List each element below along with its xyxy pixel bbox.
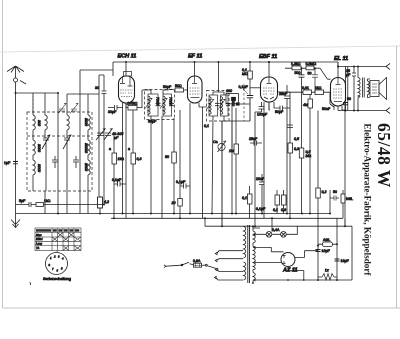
svg-text:1,3kΩ: 1,3kΩ bbox=[291, 62, 301, 66]
wire IF1 connections bbox=[142, 90, 168, 218]
wire tube cathode down bbox=[122, 103, 124, 214]
tube socket circle bbox=[46, 253, 68, 275]
ground symbol bottom left bbox=[11, 214, 20, 228]
svg-text:1M: 1M bbox=[229, 149, 234, 153]
resistor 1k ohm bbox=[36, 203, 44, 207]
output terminal top chevron bbox=[386, 64, 390, 70]
trimmer above box a bbox=[58, 103, 66, 113]
svg-text:3000: 3000 bbox=[84, 118, 88, 126]
long bus y219 bbox=[16, 213, 332, 215]
svg-text:500: 500 bbox=[295, 71, 301, 75]
coil L4 bbox=[45, 115, 47, 130]
capacitor 20nF x262 bbox=[259, 174, 265, 214]
resistor 4M vertical bbox=[308, 99, 313, 108]
svg-text:0,3: 0,3 bbox=[137, 157, 142, 161]
svg-text:0,1µF: 0,1µF bbox=[256, 207, 266, 211]
svg-text:50: 50 bbox=[333, 190, 337, 194]
wire x345 to bus bbox=[344, 219, 346, 227]
wire grid row EL11 bbox=[285, 68, 331, 79]
grid tuned loop bbox=[226, 94, 238, 104]
capacitor 30pF antenna coupling bbox=[99, 75, 107, 205]
resistor cathode EL bbox=[342, 106, 346, 110]
padding cap 2 bbox=[73, 156, 79, 168]
svg-text:16µF: 16µF bbox=[322, 249, 331, 253]
svg-text:0,5: 0,5 bbox=[294, 137, 299, 141]
capacitor 16uF second bbox=[335, 259, 340, 261]
resistor det load bbox=[234, 144, 239, 154]
capacitor 1uF antenna line bbox=[13, 162, 18, 164]
svg-text:0,5MΩ: 0,5MΩ bbox=[306, 62, 317, 66]
wire grid to tube bbox=[250, 87, 261, 89]
IF transformer box 1 dashed bbox=[145, 90, 175, 120]
svg-text:20: 20 bbox=[171, 201, 176, 205]
wire y70 from x80 bbox=[80, 70, 113, 191]
resistor 0.3M right bbox=[288, 143, 293, 153]
svg-text:100pF: 100pF bbox=[257, 113, 268, 117]
coil L3 bbox=[33, 160, 35, 175]
wire x126 long bbox=[125, 103, 127, 218]
selector rotor bbox=[205, 264, 207, 266]
capacitor 0.1uF coupling EBF bbox=[247, 96, 253, 122]
svg-text:30000: 30000 bbox=[84, 143, 88, 153]
rectifier AZ11 bbox=[281, 253, 295, 267]
capacitor 100pF mid bbox=[287, 125, 293, 128]
svg-text:5µF: 5µF bbox=[19, 199, 26, 203]
shield lead dashed bbox=[32, 96, 34, 112]
wire x100 vertical bbox=[98, 75, 100, 196]
misc value labels bbox=[109, 85, 331, 211]
tube EBF11 bbox=[261, 77, 278, 102]
wire row92 bbox=[287, 92, 330, 104]
wire bottom right speaker bbox=[338, 110, 386, 112]
svg-text:0,1µF: 0,1µF bbox=[112, 178, 122, 182]
svg-text:1kΩ: 1kΩ bbox=[118, 157, 125, 161]
wire lamp feeder bbox=[271, 218, 273, 231]
resistor 0.3M vertical bbox=[131, 153, 136, 164]
svg-text:EL 11: EL 11 bbox=[334, 56, 348, 62]
tube EBF11 electrodes bbox=[267, 77, 272, 84]
resistor 0.1M hanging bbox=[248, 71, 253, 79]
wire bus to EL11 bbox=[337, 62, 339, 78]
svg-text:Kurz: Kurz bbox=[36, 233, 42, 237]
wire EL11 cathode bbox=[330, 104, 338, 111]
wire x222 to bus bbox=[221, 121, 223, 226]
svg-text:16µF: 16µF bbox=[341, 259, 350, 263]
svg-text:7000: 7000 bbox=[169, 97, 173, 105]
wire x318 vertical long bbox=[317, 111, 319, 281]
coil grid EF11 bbox=[168, 88, 174, 91]
svg-text:AGL: AGL bbox=[323, 238, 330, 242]
IF transformer box 2 dashed bbox=[207, 91, 230, 122]
wire antenna row bbox=[16, 92, 59, 94]
socket pins bbox=[49, 255, 65, 273]
wire bus to EBF11 bbox=[268, 62, 270, 77]
tube EL11 bbox=[331, 78, 346, 107]
long bus y212 bbox=[111, 217, 343, 219]
selector contact forks bbox=[215, 252, 218, 279]
resistor 1k vertical bbox=[112, 153, 117, 164]
wire x58 vertical bbox=[57, 93, 59, 214]
trimmer C2 bbox=[63, 135, 71, 150]
wire lamps loop bbox=[272, 227, 298, 235]
wire screen feed vertical bbox=[346, 67, 348, 111]
tube EF11 bbox=[188, 76, 203, 103]
mains switch bbox=[181, 264, 183, 266]
wire AZ11 bottom loop bbox=[288, 267, 304, 281]
coil L6 bbox=[88, 115, 90, 130]
svg-text:0,1µF: 0,1µF bbox=[239, 85, 249, 89]
IF2 cap a bbox=[215, 103, 220, 105]
svg-text:1µF: 1µF bbox=[4, 161, 11, 165]
wire EBF cathode legs bbox=[264, 102, 274, 218]
mains lead bbox=[164, 265, 181, 268]
IF2 trimmer arrow a bbox=[207, 99, 214, 109]
coil L5 bbox=[67, 115, 69, 130]
svg-text:EF 11: EF 11 bbox=[188, 54, 202, 60]
svg-text:Mittel: Mittel bbox=[36, 237, 43, 241]
svg-text:30µF: 30µF bbox=[108, 110, 117, 114]
svg-text:25nF: 25nF bbox=[249, 137, 258, 141]
page edge right bbox=[396, 46, 398, 308]
wire coil col1 bbox=[32, 93, 34, 191]
wire EF11 cathode down bbox=[189, 103, 191, 214]
output transformer primary bbox=[358, 78, 360, 98]
svg-text:EBF 11: EBF 11 bbox=[259, 54, 277, 60]
wire coil col2 bbox=[45, 93, 46, 191]
wire x354 bbox=[353, 66, 355, 68]
wire x180 bbox=[179, 110, 181, 218]
resistor 0.5M row bbox=[306, 66, 314, 70]
resistor 20 cathode EF bbox=[178, 199, 183, 207]
IF2 coil a bbox=[209, 97, 211, 115]
svg-text:20nF: 20nF bbox=[256, 177, 265, 181]
IF2 tuned loop b bbox=[221, 95, 229, 116]
capacitor 100pF diode bbox=[255, 102, 265, 226]
svg-text:NSL: NSL bbox=[346, 197, 353, 201]
wire transformer conns bbox=[358, 67, 370, 111]
wire coil col4 bbox=[87, 94, 89, 191]
svg-text:300: 300 bbox=[37, 120, 41, 126]
resistor 50 grid EF11 bbox=[175, 88, 184, 92]
capacitor 16uF first bbox=[316, 250, 321, 252]
wire top right to speaker bbox=[330, 62, 386, 67]
svg-text:TA: TA bbox=[36, 246, 39, 250]
IF1 cap a bbox=[156, 103, 161, 105]
svg-text:50Ω: 50Ω bbox=[175, 84, 182, 88]
svg-text:3000: 3000 bbox=[37, 144, 41, 152]
capacitor 50pF bbox=[274, 92, 290, 111]
svg-text:0,2: 0,2 bbox=[322, 190, 327, 194]
wire secondary top to lamps bbox=[254, 233, 267, 236]
wire x330 vertical bbox=[329, 190, 331, 214]
svg-text:Serienschaltung: Serienschaltung bbox=[43, 276, 71, 281]
capacitor 0.1uF EF11 bbox=[180, 184, 190, 189]
svg-text:0,8A: 0,8A bbox=[193, 259, 201, 263]
wire bottom right rail bbox=[254, 279, 353, 281]
wire grid cap to tube bbox=[113, 62, 126, 76]
capacitor 50pF second bbox=[312, 68, 318, 92]
wire fuse to selector bbox=[202, 264, 206, 266]
wire x302 lower bbox=[301, 92, 303, 213]
resistor 0.5M vertical bbox=[299, 148, 304, 158]
svg-text:30: 30 bbox=[95, 86, 99, 90]
capacitor 25uF output bbox=[352, 67, 356, 111]
svg-text:50: 50 bbox=[165, 155, 169, 159]
svg-text:Elektro-Apparate-Fabrik, Köppe: Elektro-Apparate-Fabrik, Köppelsdorf bbox=[363, 124, 373, 277]
resistor 100k EBF grid bbox=[232, 97, 236, 100]
wire coil col3 bbox=[66, 94, 68, 191]
resistor 0.01 / 1k row bbox=[303, 90, 312, 95]
tick mark bbox=[29, 282, 32, 285]
fuse 0.8A bbox=[194, 263, 202, 267]
wire x270 down bbox=[269, 102, 270, 110]
power transformer secondary bbox=[253, 231, 255, 243]
tube EF11 electrodes bbox=[192, 76, 197, 84]
table row labels bbox=[36, 233, 43, 250]
svg-text:a: a bbox=[109, 147, 111, 151]
padding cap bbox=[52, 156, 58, 168]
IF1 coil a bbox=[148, 96, 150, 115]
svg-text:30µF: 30µF bbox=[148, 120, 157, 124]
resistor EF11 screen bbox=[172, 152, 177, 163]
wire top primary tap bbox=[204, 218, 206, 226]
IF2 cap b bbox=[226, 103, 230, 105]
page edge bottom bbox=[3, 307, 400, 309]
wire table to socket bbox=[56, 251, 58, 253]
tube ECH11 bbox=[119, 76, 135, 103]
resistor x100 bottom bbox=[98, 197, 103, 208]
svg-text:3000: 3000 bbox=[37, 164, 41, 172]
svg-text:100: 100 bbox=[226, 89, 232, 93]
svg-text:28nF: 28nF bbox=[279, 92, 288, 96]
volume pot bbox=[218, 143, 225, 150]
capacitor 30pF cathode bbox=[108, 105, 123, 110]
capacitor 25nF coupling bbox=[250, 141, 262, 146]
choke Dr bbox=[318, 274, 337, 281]
output terminal bottom chevron bbox=[386, 108, 390, 114]
capacitor 0.1uF left bbox=[114, 182, 126, 187]
coil L7 bbox=[88, 140, 90, 155]
wire x345 vertical bbox=[344, 102, 346, 226]
resistor x250 vertical bbox=[248, 194, 253, 204]
power transformer primary bbox=[244, 226, 246, 258]
svg-text:MΩ: MΩ bbox=[242, 72, 248, 76]
IF2 coil b bbox=[221, 97, 223, 115]
IF1 cap b bbox=[169, 103, 174, 105]
tube table bbox=[35, 228, 81, 251]
output transformer secondary bbox=[368, 81, 370, 95]
wire bus to EF11 top bbox=[194, 62, 196, 76]
dial lamp 1 bbox=[266, 232, 272, 238]
trimmer pair 40-105pF bbox=[96, 129, 105, 140]
output transformer core bbox=[363, 78, 365, 98]
IF2 tuned loop a bbox=[209, 95, 218, 116]
svg-text:50nF: 50nF bbox=[322, 107, 331, 111]
wire y94 row to tube bbox=[67, 93, 99, 95]
svg-text:Lang: Lang bbox=[36, 241, 42, 245]
svg-text:0,4A: 0,4A bbox=[272, 228, 280, 232]
NSL resistor right bbox=[341, 194, 345, 203]
capacitor 5uF bbox=[16, 202, 37, 207]
svg-text:50: 50 bbox=[347, 97, 351, 101]
wire coil box bottom stubs bbox=[45, 191, 88, 214]
IF2 trimmer arrow b bbox=[218, 99, 225, 109]
tube EL11 electrodes bbox=[336, 78, 341, 85]
svg-text:Ca: Ca bbox=[213, 140, 218, 144]
svg-text:50: 50 bbox=[308, 72, 312, 76]
capacitor 500pF bbox=[299, 68, 305, 92]
wire AZ11 anode 2 bbox=[254, 261, 282, 263]
capacitor 50nF cathode bbox=[343, 103, 348, 105]
svg-text:0,1: 0,1 bbox=[204, 124, 209, 128]
wire EF11 anode down bbox=[199, 103, 202, 107]
svg-text:4M: 4M bbox=[303, 103, 308, 107]
resistor AGL bbox=[323, 242, 333, 247]
svg-text:0,1: 0,1 bbox=[242, 196, 247, 200]
capacitor 28nF left bbox=[284, 85, 290, 214]
svg-text:65/48 W: 65/48 W bbox=[374, 123, 394, 188]
table header text blocks bbox=[36, 229, 79, 232]
power transformer core bbox=[248, 225, 250, 283]
svg-text:0,3: 0,3 bbox=[294, 147, 299, 151]
svg-text:0,1µF: 0,1µF bbox=[176, 180, 186, 184]
dial lamp 2 bbox=[281, 232, 287, 238]
wire x228 detector bbox=[231, 108, 233, 150]
capacitor IF2 out bbox=[231, 121, 233, 214]
wire IF2 connections bbox=[202, 62, 250, 226]
trimmer above box b bbox=[70, 103, 78, 113]
IF1 trimmer arrow a bbox=[145, 98, 152, 108]
svg-text:4,2: 4,2 bbox=[104, 200, 109, 204]
IF1 tuned loop b bbox=[163, 94, 172, 116]
tube ECH11 top cap bbox=[124, 72, 132, 77]
wire HT secondary top bbox=[254, 246, 284, 252]
resistor 1.3k row bbox=[292, 66, 301, 70]
IF1 trimmer arrow b bbox=[160, 98, 167, 108]
selector tap wires bbox=[216, 251, 243, 280]
IF1 coil b bbox=[163, 96, 165, 115]
page edge left bbox=[2, 0, 4, 308]
wire x133 bbox=[132, 110, 134, 214]
wire top bus y62 bbox=[113, 61, 330, 63]
antenna bbox=[7, 66, 26, 93]
long bus y225 bbox=[205, 225, 352, 227]
svg-text:1kΩ: 1kΩ bbox=[315, 86, 322, 90]
trimmer C bbox=[42, 135, 50, 150]
tuning coil box dashed bbox=[27, 112, 92, 191]
speaker bbox=[370, 81, 379, 97]
svg-text:7000: 7000 bbox=[156, 97, 160, 105]
page edge top bbox=[0, 46, 400, 52]
wire AZ11 cathode out bbox=[295, 251, 318, 258]
coil L2 bbox=[33, 140, 35, 155]
wire x337 vertical long bbox=[336, 218, 338, 280]
coil L1 bbox=[33, 115, 35, 130]
svg-text:50pF: 50pF bbox=[163, 85, 172, 89]
transformer secondary connections bbox=[252, 228, 260, 283]
tube ECH11 electrodes bbox=[120, 76, 133, 86]
wire x352 vertical bbox=[351, 226, 353, 280]
svg-text:ECH 11: ECH 11 bbox=[118, 54, 137, 60]
svg-text:a: a bbox=[128, 147, 130, 151]
resistor 0.2M on B+ bbox=[316, 188, 321, 198]
svg-text:50pF: 50pF bbox=[275, 110, 284, 114]
resistor 100k anode bbox=[128, 106, 137, 111]
coil L8 bbox=[88, 160, 90, 175]
IF1 tuned loop a bbox=[148, 94, 158, 116]
resistor pair bottom x277/283 bbox=[275, 195, 280, 205]
svg-text:0,01: 0,01 bbox=[302, 86, 309, 90]
wire x114 bbox=[113, 136, 115, 219]
svg-text:3000: 3000 bbox=[84, 163, 88, 171]
shield dashed bbox=[243, 84, 245, 121]
svg-text:MΩ: MΩ bbox=[306, 154, 312, 158]
wire antenna down to ground bus bbox=[15, 93, 17, 214]
svg-text:100kΩ: 100kΩ bbox=[127, 102, 138, 106]
